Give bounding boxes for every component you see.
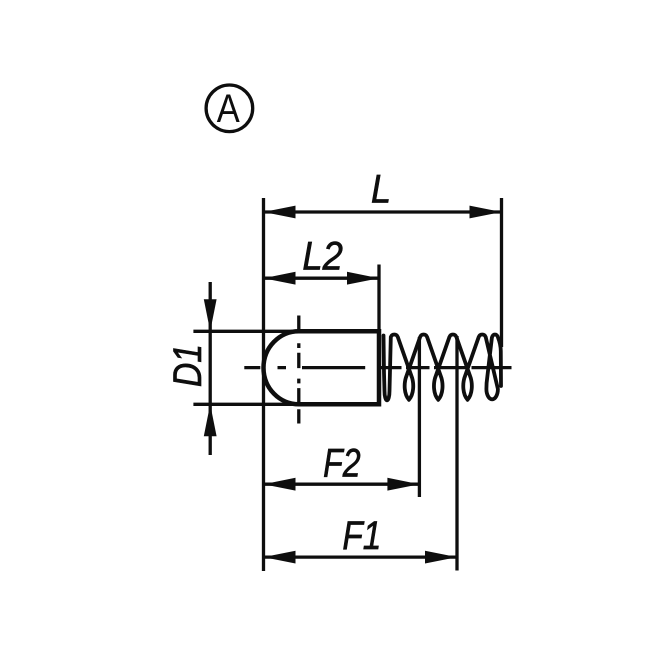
- svg-text:F1: F1: [342, 514, 381, 558]
- dimension L left arrow: [264, 206, 296, 219]
- dimension D1 bottom arrow: [204, 404, 217, 436]
- dimension F2 line: [264, 483, 420, 486]
- dimension D1 top arrow: [204, 299, 217, 331]
- dimension L right arrow: [470, 206, 502, 219]
- dimension L2 left arrow: [264, 272, 296, 285]
- extension line right for L2: [377, 265, 380, 332]
- dimension F2 right arrow: [387, 478, 419, 491]
- dimension D1 line: [209, 282, 212, 455]
- svg-text:F2: F2: [323, 442, 361, 486]
- svg-text:L2: L2: [302, 235, 343, 279]
- view label circle A: [206, 85, 253, 132]
- svg-text:L: L: [371, 168, 391, 212]
- witness line D1 bottom: [193, 403, 299, 406]
- dimension F2 left arrow: [264, 478, 296, 491]
- plunger pin body (domed pressure pin outline): [264, 331, 380, 404]
- dimension F1 right arrow: [425, 551, 457, 564]
- svg-text:D1: D1: [166, 344, 210, 387]
- extension line left shared (L, L2, F2, F1): [262, 198, 265, 571]
- dimension F1 line: [264, 555, 458, 558]
- extension line for F2: [418, 337, 421, 497]
- dimension L2 line: [264, 277, 380, 280]
- svg-text:A: A: [217, 87, 240, 131]
- centerline vertical (dome sphere center, dash-dot): [297, 316, 300, 424]
- dimension F1 left arrow: [264, 551, 296, 564]
- extension line for F1: [455, 336, 458, 571]
- compression spring coils: [384, 335, 502, 401]
- witness line D1 top: [193, 330, 299, 333]
- dimension L2 right arrow: [347, 272, 379, 285]
- centerline horizontal (part axis, dash-dot): [244, 366, 511, 369]
- extension line right for L: [500, 198, 503, 347]
- dimension L line: [264, 210, 502, 213]
